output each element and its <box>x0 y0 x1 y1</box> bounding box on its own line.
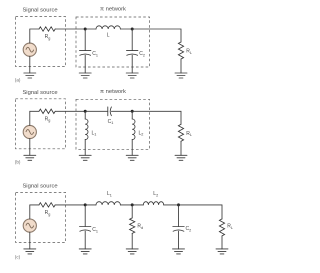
svg-text:Signal source: Signal source <box>22 183 57 189</box>
svg-text:(a): (a) <box>15 77 21 82</box>
svg-text:Signal source: Signal source <box>22 8 57 14</box>
svg-text:(b): (b) <box>15 160 21 165</box>
svg-text:(c): (c) <box>15 254 21 259</box>
svg-text:L: L <box>107 33 110 39</box>
svg-text:π network: π network <box>100 89 126 95</box>
svg-text:Signal source: Signal source <box>22 90 57 96</box>
svg-text:π network: π network <box>100 7 126 13</box>
